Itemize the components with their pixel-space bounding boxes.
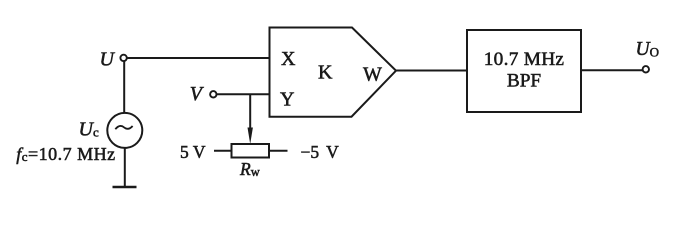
svg-text:5 V: 5 V	[180, 142, 206, 162]
svg-text:W: W	[363, 64, 382, 86]
node V terminal	[210, 91, 216, 97]
node Uo terminal	[643, 66, 649, 72]
svg-text:Rw: Rw	[239, 159, 260, 179]
svg-text:K: K	[318, 62, 333, 84]
wire U terminal down to source	[123, 61, 125, 113]
BPF block	[467, 30, 581, 112]
AC source Uc	[107, 113, 142, 148]
node U terminal	[120, 55, 126, 61]
wiper arrow of Rw	[248, 128, 253, 145]
svg-text:U: U	[100, 49, 116, 71]
wire BPF to output	[581, 69, 643, 71]
svg-text:X: X	[281, 48, 296, 70]
wire U to X input	[127, 57, 271, 59]
svg-text:BPF: BPF	[507, 71, 542, 92]
potentiometer Rw	[232, 144, 270, 158]
svg-text:fc=10.7 MHz: fc=10.7 MHz	[16, 144, 115, 164]
wire V to Y input	[217, 93, 271, 95]
svg-text:UO: UO	[636, 39, 659, 60]
ground	[113, 186, 137, 189]
wire junction down to potentiometer wiper	[249, 94, 251, 132]
svg-text:−5V: −5V	[301, 142, 340, 162]
svg-text:V: V	[190, 83, 205, 105]
svg-text:Y: Y	[280, 89, 294, 111]
multiplier K	[270, 28, 397, 117]
wire source to ground	[124, 148, 126, 187]
svg-text:Uc: Uc	[79, 119, 99, 141]
wire W to BPF	[396, 70, 467, 72]
svg-text:10.7 MHz: 10.7 MHz	[484, 49, 565, 70]
